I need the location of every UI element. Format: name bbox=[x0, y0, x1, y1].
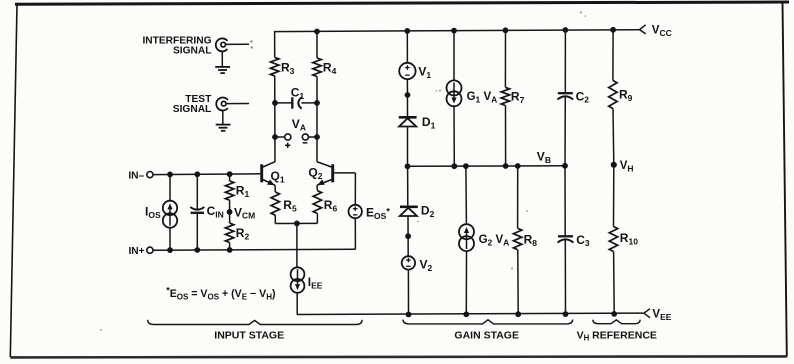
wire: EOS down to IN+ rail bbox=[354, 218, 356, 249]
capacitor CIN bbox=[190, 207, 204, 213]
resistor R2 bbox=[225, 223, 233, 242]
wire: V1 to D1 bbox=[406, 79, 408, 117]
resistor R6 bbox=[313, 191, 321, 214]
junction dot on VCC rail at R4 branch bbox=[314, 29, 320, 35]
junction dot VB at G1 bbox=[451, 163, 457, 169]
junction dot VEE at G2 bbox=[463, 311, 469, 317]
wire: IEE down to VEE rail bbox=[296, 293, 298, 315]
transistor Q2 bbox=[317, 162, 333, 186]
wire: R1 to VCM node bbox=[229, 200, 231, 223]
voltage source V1 bbox=[399, 63, 415, 79]
terminal IN+ bbox=[147, 247, 153, 253]
junction dot IOS bottom bbox=[167, 247, 173, 253]
junction dot VA right bbox=[314, 134, 320, 140]
wire: G1 down to VB rail bbox=[453, 106, 455, 166]
svg-text:VH REFERENCE: VH REFERENCE bbox=[577, 330, 657, 343]
junction dot R2 bottom bbox=[227, 247, 233, 253]
junction dot VB at D column bbox=[405, 163, 411, 169]
junction dot VEE at R8 bbox=[515, 311, 521, 317]
wire: VB rail to C3 bbox=[564, 166, 566, 237]
wire: CIN down to IN+ rail bbox=[196, 213, 198, 250]
wire: C2 to VB rail bbox=[564, 97, 566, 166]
resistor R1 bbox=[225, 181, 233, 200]
brace: input stage bbox=[148, 320, 363, 325]
junction dot VB at R8 bbox=[515, 163, 521, 169]
wire: interfering signal lead bbox=[226, 43, 249, 45]
wire: C3 down to VEE rail bbox=[564, 240, 566, 314]
wire: R4 to Q2 collector bbox=[316, 77, 318, 162]
junction dot C1 left bbox=[272, 100, 278, 106]
capacitor C1 bbox=[292, 97, 301, 108]
plus mark bbox=[285, 144, 290, 146]
voltage source V2 bbox=[402, 256, 415, 269]
resistor R5 bbox=[271, 192, 279, 215]
connector: interfering signal input bbox=[216, 38, 228, 51]
wire: right VA stub bbox=[308, 136, 317, 138]
junction dot VCC rail at C2 branch bbox=[563, 27, 569, 33]
node VEE terminal bbox=[644, 309, 650, 318]
junction dot VEE at R10 bbox=[611, 311, 617, 317]
dependent source G1 bbox=[447, 80, 462, 95]
minus mark bbox=[303, 142, 308, 144]
label: INTERFERING SIGNAL bbox=[142, 35, 211, 56]
diode D1 bbox=[399, 117, 417, 126]
wire: IN+ rail to EOS branch bbox=[153, 249, 355, 250]
resistor R7 bbox=[501, 87, 509, 105]
brace: gain stage bbox=[403, 320, 573, 324]
node VH bbox=[611, 162, 617, 168]
wire: Q2 emitter to R6 bbox=[316, 185, 318, 190]
wire: R6 to emitter join bbox=[316, 214, 318, 224]
wire: IN- rail to Q1 base bbox=[153, 173, 260, 176]
wire: R9 to VH node bbox=[612, 109, 615, 165]
current source IEE bbox=[291, 267, 305, 281]
wire: VB rail to G2 bbox=[465, 166, 468, 224]
wire: R7 to VB rail bbox=[505, 106, 507, 167]
wire: VCC top rail bbox=[275, 30, 640, 32]
svg-text:INPUT STAGE: INPUT STAGE bbox=[214, 330, 284, 342]
wire: VH node to R10 bbox=[613, 165, 615, 227]
junction dot CIN top bbox=[194, 171, 200, 177]
capacitor C3 bbox=[558, 236, 574, 242]
transistor Q1 bbox=[262, 162, 275, 186]
junction dot VCC rail at R9 branch bbox=[610, 27, 616, 33]
junction dot R1 top bbox=[227, 171, 233, 177]
resistor R4 bbox=[313, 58, 321, 77]
dependent source G2 bbox=[459, 224, 474, 239]
wire: node A left to C1 bbox=[275, 102, 292, 104]
wire: D2 to V2 bbox=[407, 216, 409, 256]
resistor R9 bbox=[609, 81, 617, 109]
diode D2 bbox=[400, 207, 418, 216]
junction dot emitter join bbox=[294, 221, 300, 227]
junction dot C1 right bbox=[314, 100, 320, 106]
wire: VB rail bbox=[408, 165, 566, 168]
node VCM bbox=[227, 209, 233, 215]
ground (interfering signal) bbox=[215, 51, 230, 73]
wire: test signal lead bbox=[226, 103, 249, 105]
junction dot between D2 and V2 bbox=[405, 233, 411, 239]
junction dot VA left bbox=[272, 134, 278, 140]
wire: emitter join down to IEE bbox=[296, 223, 298, 267]
junction dot VCC rail at G1 branch bbox=[451, 28, 457, 34]
wire: C1 to node B right bbox=[301, 102, 317, 104]
wire: V2 to VEE rail bbox=[407, 270, 409, 315]
svg-text:SIGNAL: SIGNAL bbox=[173, 45, 212, 56]
wire: VEE bottom rail bbox=[297, 313, 644, 314]
wire: VCC rail to V1 bbox=[406, 31, 408, 63]
wire: VCC rail to R7 bbox=[504, 30, 506, 87]
junction dot VEE at C3 bbox=[563, 311, 569, 317]
node VCC terminal bbox=[640, 25, 646, 34]
svg-text:SIGNAL: SIGNAL bbox=[173, 104, 212, 115]
resistor R3 bbox=[271, 57, 279, 76]
resistor R10 bbox=[609, 227, 617, 252]
wire: IN- rail down to CIN bbox=[196, 174, 198, 209]
junction dot VCC rail at V1 branch bbox=[404, 28, 410, 34]
wire: D1 to VB rail bbox=[407, 127, 409, 167]
current source IOS bbox=[163, 201, 177, 215]
wire: VCC rail to G1 bbox=[453, 31, 455, 81]
voltage source EOS* bbox=[349, 205, 362, 218]
svg-text:GAIN STAGE: GAIN STAGE bbox=[454, 329, 519, 341]
terminal IN- bbox=[147, 172, 153, 178]
junction dot VB at C2/C3 bbox=[562, 163, 568, 169]
wire: G2 down to VEE rail bbox=[465, 251, 467, 314]
wire: VB rail to D2 bbox=[407, 166, 409, 207]
capacitor C2 bbox=[557, 93, 573, 99]
brace: VH reference bbox=[593, 320, 640, 324]
wire: R2 down to IN+ rail bbox=[229, 243, 231, 250]
wire: VCC rail down to R3 bbox=[274, 31, 276, 58]
junction dot VEE at V2 bbox=[406, 312, 412, 318]
junction dot between V1 and D1 bbox=[405, 92, 411, 98]
ground (test signal) bbox=[216, 111, 231, 131]
junction dot VB at G2 bbox=[463, 163, 469, 169]
wire: emitter join line bbox=[275, 222, 317, 224]
terminal + (VA) bbox=[285, 134, 291, 140]
wire: VCC rail to R9 bbox=[612, 30, 614, 81]
terminal - (VA) bbox=[302, 134, 308, 140]
wire: R10 down to VEE rail bbox=[613, 252, 616, 314]
junction dot CIN bottom bbox=[194, 247, 200, 253]
junction dot IOS top bbox=[167, 172, 173, 178]
svg-text:IN–: IN– bbox=[128, 170, 144, 181]
wire: VCC rail down to R4 bbox=[316, 32, 318, 59]
wire: R3 to Q1 collector bbox=[274, 76, 276, 162]
svg-text:IN+: IN+ bbox=[128, 246, 144, 257]
wire: VB rail to R8 bbox=[517, 166, 519, 228]
wire: R8 down to VEE rail bbox=[517, 250, 519, 315]
wire: R5 to emitter join bbox=[274, 215, 276, 223]
resistor R8 bbox=[513, 228, 521, 249]
connector: test signal input bbox=[216, 98, 228, 111]
wire: Q1 emitter to R5 bbox=[274, 185, 276, 192]
label: TEST SIGNAL bbox=[173, 94, 212, 115]
wire: IN- rail down to IOS bbox=[169, 174, 171, 201]
junction dot VB at R7 bbox=[503, 163, 509, 169]
wire: Q2 base to EOS bbox=[334, 172, 355, 174]
wire: left VA stub bbox=[275, 136, 285, 138]
junction dot VCC rail at R7 branch bbox=[503, 27, 509, 33]
wire: VCC rail to C2 bbox=[564, 30, 566, 93]
wire: IN- rail down to R1 bbox=[229, 174, 231, 181]
wire: IOS down to IN+ rail bbox=[169, 228, 171, 250]
